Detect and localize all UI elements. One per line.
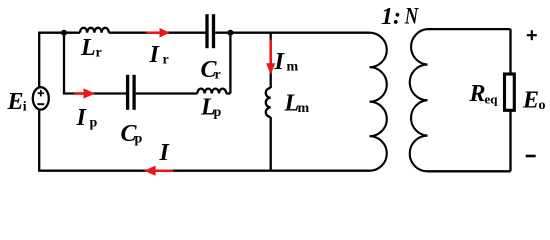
capacitor C_r [207, 14, 214, 48]
wire: vertical from node B down to L_p [229, 33, 231, 94]
svg-text:eq: eq [485, 92, 499, 107]
current arrow I_p (red) [74, 88, 95, 98]
wire: left rail from top corner to bottom corner (through source) [38, 33, 40, 171]
svg-text:p: p [90, 116, 98, 131]
transformer T1 secondary winding [410, 29, 428, 171]
svg-text:E: E [7, 89, 24, 115]
inductor L_r [80, 28, 109, 33]
wire: top rail from L_r to C_r left plate [109, 32, 206, 34]
wire: bottom rail [38, 170, 369, 172]
wire: middle branch from node A corner to C_p [63, 92, 126, 94]
svg-text:I: I [76, 105, 88, 131]
wire: middle branch from L_p to vertical riser [226, 92, 230, 94]
wire: vertical from node A down to middle branch [63, 33, 65, 94]
svg-text:1:: 1: [381, 4, 401, 30]
svg-text:N: N [404, 3, 419, 28]
node B junction dot after C_r [227, 30, 233, 36]
current arrow I_m (red, pointing down) [266, 40, 275, 75]
svg-text:I: I [274, 49, 286, 75]
current arrow I (red, pointing left) [144, 166, 174, 176]
wire: right rail bottom segment [509, 111, 511, 172]
svg-text:R: R [469, 81, 486, 107]
wire: secondary top rail [428, 28, 511, 30]
node A junction dot on top wire [61, 30, 67, 36]
wire: top rail segment from corner to L_r [38, 32, 80, 34]
svg-text:m: m [298, 101, 310, 116]
svg-text:I: I [159, 140, 171, 166]
inductor L_p [197, 89, 226, 94]
svg-text:r: r [96, 45, 102, 60]
wire: top rail from C_r to transformer primary [215, 32, 369, 34]
svg-text:r: r [163, 52, 169, 67]
wire: middle branch from C_p to L_p [136, 92, 198, 94]
wire: right rail top segment [509, 29, 511, 73]
svg-text:E: E [522, 88, 539, 114]
current arrow I_r (red) [147, 28, 170, 38]
wire: secondary bottom rail [428, 170, 511, 172]
svg-text:r: r [215, 68, 221, 83]
transformer T1 primary winding [370, 33, 387, 171]
svg-text:i: i [23, 99, 27, 114]
svg-text:p: p [214, 105, 222, 120]
svg-text:L: L [80, 35, 96, 61]
svg-text:I: I [149, 42, 161, 68]
wire: L_m branch vertical (top wire to bottom wire) [270, 33, 272, 88]
svg-text:m: m [287, 60, 299, 75]
plus terminal [527, 30, 537, 40]
voltage source E_i [33, 87, 49, 109]
minus terminal [526, 155, 536, 158]
capacitor C_p [128, 75, 135, 110]
svg-text:o: o [539, 98, 546, 113]
inductor L_m (vertical, 3 humps bulging left) [266, 88, 271, 117]
svg-text:p: p [135, 132, 143, 147]
resistor R_eq [505, 74, 515, 110]
